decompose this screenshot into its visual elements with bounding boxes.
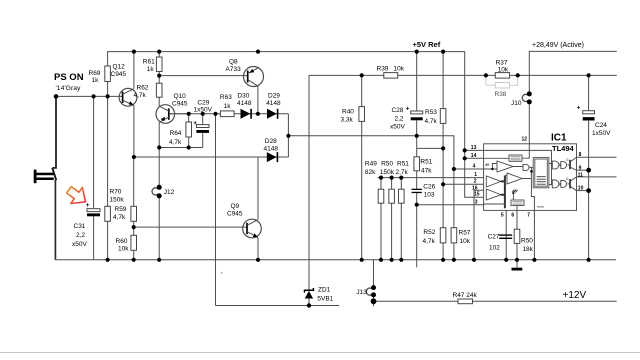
wire Q9 emitter down [257, 238, 259, 260]
wire R61-R62 junction [158, 72, 160, 84]
svg-text:R37: R37 [496, 59, 508, 66]
wire Q9 base line [134, 226, 247, 228]
svg-text:10k: 10k [498, 66, 509, 73]
jumper J13 dots [371, 285, 376, 290]
svg-text:C28: C28 [392, 107, 404, 114]
resistor R64 [186, 122, 192, 137]
wire pin10 stub [577, 190, 589, 192]
wire J12 lower lead [158, 196, 160, 260]
svg-text:1k: 1k [147, 66, 155, 73]
wire +5V top rail with pin15 jog [108, 52, 484, 198]
ground symbol [512, 268, 523, 271]
svg-text:4148: 4148 [266, 100, 281, 107]
junction dots [54, 94, 59, 99]
svg-text:47k: 47k [421, 167, 432, 174]
svg-text:16: 16 [472, 185, 478, 191]
wire R64 branch [188, 114, 190, 148]
wire pin7 lead [533, 197, 535, 260]
svg-text:1x50V: 1x50V [592, 130, 611, 137]
svg-text:R53: R53 [425, 109, 437, 116]
wire PS ON node to Q12 base [56, 95, 122, 97]
wire R59 R60 chain [133, 157, 135, 260]
wire R47 +12V line [374, 300, 617, 302]
IC1 TL494 box [484, 144, 577, 211]
svg-text:18k: 18k [522, 246, 533, 253]
IC internal output transistor T2 [569, 179, 571, 188]
svg-text:D29: D29 [268, 93, 280, 100]
jumper J13 arc [366, 288, 372, 295]
svg-text:R51: R51 [397, 161, 409, 168]
IC internal output transistor T1 [569, 160, 571, 169]
wire pin2 stub [443, 183, 484, 185]
IC internal flip flop [533, 157, 549, 187]
svg-text:150k: 150k [380, 169, 395, 176]
svg-text:R50: R50 [521, 237, 533, 244]
wire C28 branch from +5V [416, 52, 418, 136]
resistor R60 [131, 235, 137, 250]
wire pin14 stub [465, 157, 484, 159]
wire R57 chain pin4 [453, 169, 455, 260]
svg-text:2,7k: 2,7k [396, 169, 409, 176]
IC internal pin6 inside lead [516, 206, 518, 211]
wire R61 top lead [158, 52, 160, 57]
IC internal pin12 line [522, 144, 529, 158]
svg-text:R38: R38 [495, 91, 507, 98]
wire Q9 collector up [257, 157, 259, 219]
svg-text:IC1: IC1 [551, 132, 567, 143]
svg-text:C26: C26 [423, 183, 435, 190]
stray speck [221, 272, 223, 274]
wire R53 R52 chain [442, 52, 444, 260]
svg-text:3,3k: 3,3k [341, 117, 354, 124]
wire pin1 line [378, 177, 484, 179]
svg-text:Q12: Q12 [113, 63, 126, 70]
svg-text:PS ON: PS ON [54, 72, 84, 83]
resistor R38 ghost [486, 76, 518, 85]
capacitor C27 [499, 234, 512, 235]
IC internal buffer gate 2 [561, 181, 567, 188]
wire C26 stub below rail [416, 205, 418, 268]
resistor R49 [378, 189, 384, 203]
IC internal oscillator glyph [512, 190, 518, 192]
svg-text:10k: 10k [394, 65, 405, 72]
wire pin5 lead [505, 210, 507, 259]
resistor R50 150k [389, 189, 395, 203]
wire R51 2.7k branch [400, 178, 402, 260]
IC internal NOR gate 2 [552, 180, 559, 188]
svg-text:R64: R64 [170, 130, 182, 137]
wire left rail upper [52, 96, 56, 167]
svg-text:4,7k: 4,7k [425, 118, 438, 125]
svg-text:4148: 4148 [237, 100, 252, 107]
diode D28 [267, 152, 277, 162]
IC internal error amp 1 [486, 176, 501, 187]
svg-text:150k: 150k [110, 197, 125, 204]
resistor R52 [440, 228, 446, 243]
svg-text:Q9: Q9 [231, 203, 240, 210]
IC internal AND gate [523, 164, 529, 170]
resistor R62 [156, 83, 162, 97]
svg-text:5: 5 [501, 212, 504, 218]
wire pin6 lead R50 18k [516, 210, 518, 259]
wire Q12 emitter down to node [133, 105, 135, 157]
svg-text:2,2: 2,2 [395, 115, 404, 122]
svg-text:R59: R59 [115, 206, 127, 213]
capacitor C28 [411, 111, 423, 114]
svg-text:2,2: 2,2 [76, 232, 85, 239]
wire R50 branch [391, 178, 393, 260]
wire R49 branch [380, 178, 382, 260]
wire R63 node down to ZD1 anode wire [216, 114, 340, 306]
svg-text:R49: R49 [365, 161, 377, 168]
svg-text:4: 4 [473, 163, 476, 169]
svg-text:R57: R57 [459, 229, 471, 236]
svg-text:10k: 10k [460, 238, 471, 245]
resistor R53 [440, 109, 446, 124]
svg-text:R39: R39 [377, 65, 389, 72]
wire Q8 emitter down [257, 86, 259, 114]
wire R62 to Q10 collector [158, 97, 160, 106]
wire C31 branch [93, 96, 95, 259]
svg-text:7: 7 [527, 212, 530, 218]
svg-text:R50: R50 [381, 161, 393, 168]
zener ZD1 [305, 288, 314, 293]
IC internal comparator A [497, 161, 513, 172]
svg-text:5VB1: 5VB1 [317, 296, 333, 303]
svg-text:R63: R63 [220, 94, 232, 101]
svg-text:12: 12 [522, 137, 528, 143]
diode D30 [241, 109, 251, 119]
svg-text:J12: J12 [164, 189, 175, 196]
svg-text:R52: R52 [423, 229, 435, 236]
svg-text:Q8: Q8 [229, 58, 238, 65]
wire +28V rail and J10 [529, 51, 617, 143]
svg-text:+5V Ref: +5V Ref [413, 40, 441, 49]
svg-text:J10: J10 [511, 100, 522, 107]
svg-text:Q10: Q10 [174, 93, 187, 100]
IC internal error amp 2 [486, 189, 501, 200]
svg-text:C24: C24 [595, 122, 607, 129]
transistor Q10 mirrored [156, 105, 175, 124]
wire left rail lower and bottom ground rail [54, 180, 56, 260]
svg-text:82k: 82k [365, 169, 376, 176]
resistor R51 2.7k [399, 189, 405, 203]
faint page border bottom [0, 352, 640, 354]
svg-text:+: + [577, 105, 581, 112]
wire pin8 output [577, 156, 617, 158]
svg-text:+: + [193, 120, 197, 127]
wire pin16 to ground rail [474, 190, 484, 259]
capacitor C29 [196, 125, 209, 128]
svg-text:D30: D30 [237, 93, 249, 100]
svg-text:C945: C945 [172, 101, 188, 108]
svg-text:D28: D28 [265, 138, 277, 145]
wire R64 bottom / C29 bottom link [159, 147, 203, 149]
wire C28 bottom to R51 47k and C26 chain [416, 136, 418, 205]
wire J13 branch [373, 260, 375, 306]
transistor Q9 [243, 219, 262, 238]
svg-text:C31: C31 [74, 223, 86, 230]
IC internal buffer gate 1 [561, 162, 567, 169]
wire x309 rail down to ZD1 [308, 75, 310, 305]
wire Q12 collector [133, 52, 135, 89]
svg-text:J13: J13 [356, 289, 367, 296]
wire ground stub [516, 260, 518, 268]
svg-text:C29: C29 [197, 99, 209, 106]
wire switch blade diagonal [52, 168, 56, 180]
svg-text:10k: 10k [118, 246, 129, 253]
svg-text:4,7k: 4,7k [423, 238, 436, 245]
wire J12 upper lead [158, 148, 160, 188]
wire Q8 base line [159, 75, 248, 77]
IC internal DTC glyph [485, 164, 488, 166]
resistor R39 [384, 73, 398, 79]
svg-text:3: 3 [475, 199, 478, 205]
svg-text:6: 6 [511, 212, 514, 218]
svg-text:1x50V: 1x50V [194, 107, 213, 114]
svg-text:C945: C945 [227, 211, 243, 218]
wire R51 top link to R53 rail [417, 147, 443, 149]
wire soft-start line D29/D28 node to pin 4 [288, 136, 483, 169]
wire pin9 stub [577, 169, 589, 171]
resistor R69 [105, 66, 111, 82]
jumper J10 dots [527, 91, 532, 96]
capacitor C24 [583, 111, 595, 114]
resistor R63 [220, 111, 234, 117]
jumper J12 dots [157, 185, 162, 190]
wire diode row y113.8 [169, 113, 289, 115]
svg-text:R60: R60 [116, 238, 128, 245]
svg-text:A733: A733 [226, 66, 242, 73]
svg-text:'14'Gray: '14'Gray [56, 85, 81, 92]
transistor Q12 [119, 88, 137, 106]
svg-text:C945: C945 [111, 71, 127, 78]
wire PWM drive line y157 to D28 and up-link to D29 [134, 114, 289, 157]
wire C24 branch [588, 75, 590, 259]
IC internal pin3 inside line [484, 203, 505, 205]
IC internal pin14 line [484, 157, 509, 159]
IC internal small dash [537, 206, 544, 208]
resistor R51 47k [414, 157, 420, 171]
svg-text:13: 13 [471, 145, 477, 151]
svg-text:+: + [406, 105, 410, 112]
resistor R57 [451, 228, 457, 243]
transistor Q8 [244, 67, 264, 87]
wire C29 branch [202, 114, 204, 148]
svg-text:4,7k: 4,7k [169, 139, 182, 146]
svg-text:10: 10 [578, 185, 584, 191]
svg-text:x50V: x50V [72, 241, 87, 248]
svg-text:TL494: TL494 [552, 144, 575, 153]
resistor R37 [495, 73, 509, 79]
resistor R47 [458, 299, 473, 304]
svg-text:+12V: +12V [563, 290, 587, 301]
svg-text:ZD1: ZD1 [318, 287, 331, 294]
IC internal ref regulator block [509, 155, 522, 161]
IC internal pin13 bus [484, 150, 552, 185]
svg-text:R70: R70 [110, 189, 122, 196]
wire Q10 emitter [158, 122, 160, 147]
svg-text:103: 103 [424, 191, 435, 198]
svg-text:x50V: x50V [390, 124, 405, 131]
connector plug symbol [34, 170, 37, 184]
svg-text:+28,49V (Active): +28,49V (Active) [532, 42, 584, 49]
wire R70 branch [107, 96, 109, 259]
svg-text:R51: R51 [420, 159, 432, 166]
svg-text:4,7k: 4,7k [134, 92, 147, 99]
svg-text:2: 2 [474, 179, 477, 185]
jumper J12 arc [152, 188, 158, 195]
svg-text:1k: 1k [224, 103, 232, 110]
wire pin11 output [577, 176, 617, 178]
svg-text:R62: R62 [137, 84, 149, 91]
resistor R59 [131, 206, 137, 221]
wire R69 bottom lead [107, 82, 109, 97]
capacitor C26 [412, 189, 422, 190]
IC internal feedback bus [501, 176, 505, 209]
resistor R70 [105, 206, 111, 221]
svg-text:15: 15 [474, 191, 480, 197]
IC internal NOR gate 1 [552, 161, 559, 169]
svg-text:4,7k: 4,7k [113, 214, 126, 221]
wire R40 branch [361, 75, 363, 259]
svg-text:9: 9 [579, 166, 582, 172]
svg-text:1k: 1k [92, 77, 100, 84]
svg-text:+: + [86, 202, 90, 209]
wire feedback line y75.4 R39 R37 [309, 74, 617, 76]
IC internal comparator B [507, 173, 522, 184]
resistor R61 [156, 57, 162, 72]
IC internal oscillator block [511, 200, 524, 206]
svg-text:11: 11 [578, 172, 584, 178]
wire pin13 stub [465, 149, 484, 151]
resistor R50 18k [514, 229, 520, 243]
svg-text:14: 14 [471, 153, 477, 159]
jumper J10 arc [522, 94, 528, 101]
svg-text:102: 102 [489, 245, 500, 252]
svg-text:4148: 4148 [264, 145, 279, 152]
IC internal gate to flipflop wires [529, 167, 534, 196]
wire pin3 line from C26 [417, 204, 484, 206]
svg-text:1: 1 [474, 172, 477, 178]
IC internal FF output wires [549, 164, 552, 185]
svg-text:8: 8 [579, 152, 582, 158]
resistor R40 [359, 107, 365, 122]
svg-text:C27: C27 [488, 234, 500, 241]
svg-text:R40: R40 [342, 108, 354, 115]
diode D29 [267, 109, 277, 119]
capacitor C31 [87, 209, 100, 212]
svg-text:R47 24k: R47 24k [453, 292, 478, 299]
svg-text:R61: R61 [143, 58, 155, 65]
